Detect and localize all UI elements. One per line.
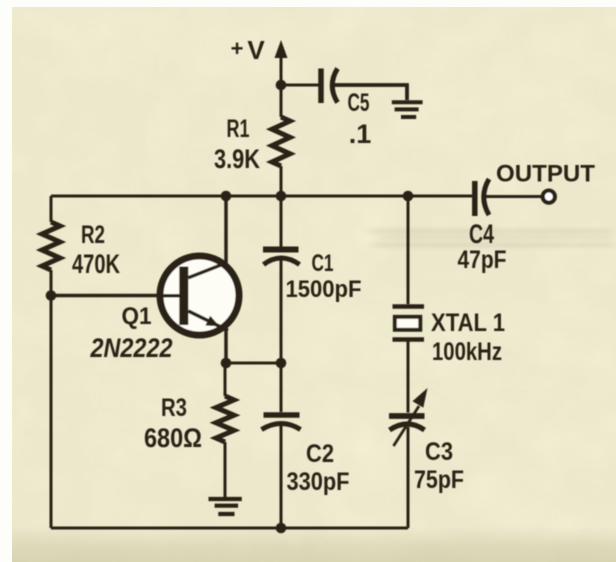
capacitor C1 xyxy=(263,250,300,265)
wire base xyxy=(51,294,160,298)
wire C4 output lead xyxy=(485,195,541,198)
transistor Q1 xyxy=(157,256,239,335)
wire C2 top lead xyxy=(280,363,283,412)
wire right branch top (to XTAL) xyxy=(407,196,410,304)
svg-text:100kHz: 100kHz xyxy=(432,338,502,366)
wire top rail xyxy=(51,195,472,198)
variable capacitor C3 xyxy=(389,388,428,446)
node emitter/R3 xyxy=(221,358,232,369)
svg-text:470K: 470K xyxy=(72,249,120,279)
svg-text:47pF: 47pF xyxy=(458,246,507,274)
svg-text:V: V xyxy=(247,35,265,65)
resistor R2 xyxy=(42,222,60,270)
wire C5 left lead xyxy=(281,84,319,87)
wire C1 top lead xyxy=(280,196,283,247)
wire R3 top lead xyxy=(224,363,227,396)
wire bottom rail xyxy=(51,527,408,530)
svg-text:+: + xyxy=(231,36,244,61)
crystal XTAL1 xyxy=(393,307,425,340)
svg-text:Q1: Q1 xyxy=(122,303,152,330)
ground (C5) xyxy=(392,102,423,117)
wire C2 bottom lead xyxy=(280,426,283,528)
wire R1 bottom lead xyxy=(280,166,283,196)
svg-text:R1: R1 xyxy=(227,115,250,143)
node C1/C2 xyxy=(276,358,287,369)
wire R3 bottom lead xyxy=(224,442,227,499)
svg-text:680Ω: 680Ω xyxy=(144,423,202,453)
svg-text:.1: .1 xyxy=(349,119,372,149)
wire C5 right lead to ground xyxy=(333,85,407,100)
svg-text:C1: C1 xyxy=(312,250,334,277)
svg-text:C5: C5 xyxy=(348,89,370,117)
resistor R1 xyxy=(272,117,290,166)
svg-text:2N2222: 2N2222 xyxy=(90,333,173,363)
node base/left-rail xyxy=(46,290,57,301)
svg-text:C3: C3 xyxy=(425,438,453,466)
node XTAL/C4 top-rail xyxy=(403,191,414,202)
svg-text:XTAL 1: XTAL 1 xyxy=(431,309,505,337)
svg-text:C4: C4 xyxy=(469,219,494,249)
svg-text:1500pF: 1500pF xyxy=(286,276,362,303)
wire left rail lower xyxy=(50,270,53,528)
svg-text:C2: C2 xyxy=(306,440,334,468)
wire C1 bottom lead xyxy=(280,259,283,363)
+V arrowhead xyxy=(275,40,288,58)
svg-text:330pF: 330pF xyxy=(287,468,350,496)
node R1/C1 top-rail xyxy=(276,191,287,202)
wire XTAL to C3 xyxy=(407,342,410,413)
capacitor C4 xyxy=(475,179,489,216)
wire emitter to C-divider node xyxy=(226,362,281,365)
wire left rail upper xyxy=(50,196,53,222)
svg-text:OUTPUT: OUTPUT xyxy=(496,161,595,188)
wire C3 bottom lead xyxy=(407,427,410,528)
node C2/bottom-rail xyxy=(276,523,287,534)
svg-text:R3: R3 xyxy=(161,394,187,422)
wire collector upper xyxy=(224,196,228,263)
wire R1 top lead xyxy=(280,85,283,117)
ground (R3) xyxy=(209,499,242,514)
node collector/top-rail xyxy=(221,191,232,202)
node +V junction xyxy=(276,80,287,91)
label +V xyxy=(231,35,266,65)
wire +V stem xyxy=(280,50,283,85)
output terminal xyxy=(543,191,555,203)
capacitor C5 xyxy=(321,69,338,104)
wire emitter lead xyxy=(224,329,228,363)
capacitor C2 xyxy=(262,415,301,430)
resistor R3 xyxy=(216,396,234,442)
svg-text:3.9K: 3.9K xyxy=(214,144,260,174)
svg-text:75pF: 75pF xyxy=(414,466,464,494)
svg-text:R2: R2 xyxy=(81,221,105,249)
